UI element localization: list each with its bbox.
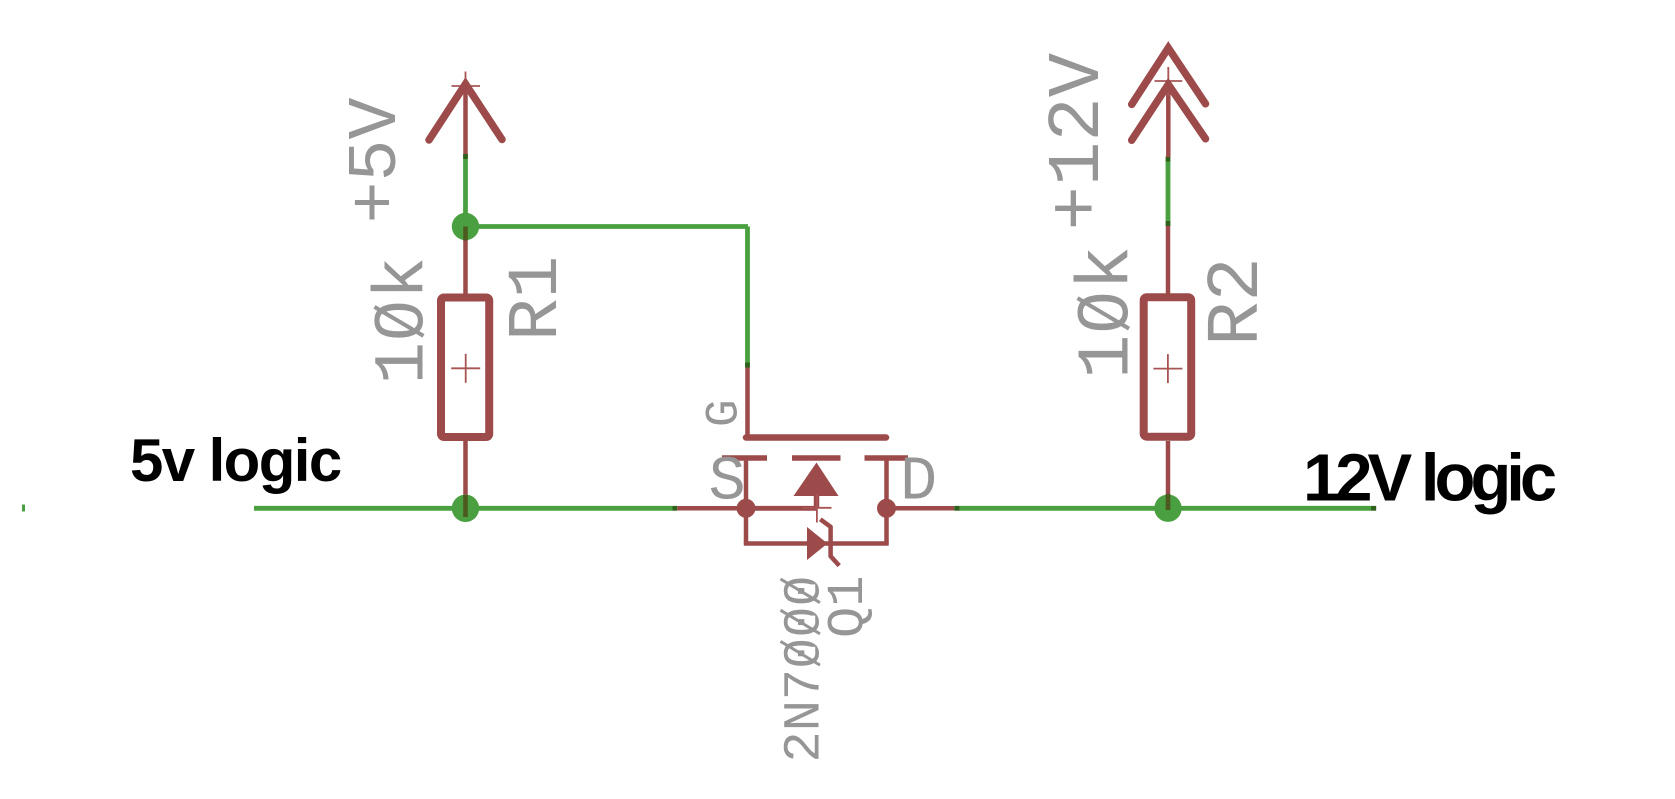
wire net +12V vertical	[1166, 221, 1171, 226]
junction node S	[737, 499, 756, 518]
transistor Q1 origin cross	[803, 494, 832, 523]
svg-text:10k: 10k	[1067, 246, 1151, 379]
transistor Q1 source lead	[744, 458, 749, 508]
supply +5V arrow symbol	[429, 84, 502, 140]
svg-text:R2: R2	[1196, 257, 1280, 346]
supply +12V origin cross	[1155, 67, 1183, 96]
supply +5V pin stem	[463, 86, 468, 156]
svg-text:D: D	[900, 447, 937, 518]
junction node D	[877, 499, 896, 518]
pin R1 bottom	[463, 441, 468, 508]
transistor Q1 drain lead	[884, 458, 889, 508]
resistor R2 origin cross	[1153, 354, 1182, 383]
supply +5V origin cross	[452, 72, 481, 101]
body diode loop	[744, 508, 889, 543]
wire gate net horizontal	[466, 224, 749, 229]
resistor R1 origin cross	[451, 354, 480, 383]
svg-text:G: G	[699, 399, 751, 427]
pin S lead wire	[677, 506, 746, 511]
junction node R1/5v-logic	[452, 495, 479, 522]
svg-text:R1: R1	[498, 256, 578, 341]
junction node R2/12V-logic	[1154, 495, 1181, 522]
label 10k (R2 value)	[1067, 246, 1151, 379]
svg-text:10k: 10k	[365, 257, 445, 385]
transistor Q1 gate bar	[746, 434, 886, 441]
pin R1 top	[463, 227, 468, 294]
pin R2 top	[1166, 226, 1171, 295]
wire net 5V vertical	[463, 154, 468, 159]
pin R2 bottom	[1166, 441, 1171, 508]
svg-text:+5V: +5V	[338, 97, 417, 223]
resistor R1 body	[441, 298, 489, 438]
svg-text:12V logic: 12V logic	[1303, 441, 1556, 516]
resistor R2 body	[1144, 297, 1192, 437]
node stub left edge	[22, 505, 25, 512]
svg-text:S: S	[709, 447, 746, 518]
supply +12V pin stem	[1166, 85, 1171, 157]
transistor Q1 channel dashes	[722, 455, 908, 461]
supply +12V arrow symbol	[1132, 48, 1206, 140]
body diode (zener) of Q1	[807, 527, 828, 560]
pin D lead wire	[887, 506, 955, 511]
wire 12V logic net	[960, 506, 1371, 511]
label 2N7000	[776, 575, 835, 762]
junction node +5V/R1/gate	[452, 213, 479, 240]
svg-text:+12V: +12V	[1037, 52, 1121, 230]
pin gate of Q1	[745, 368, 750, 438]
label 10k (R1 value)	[365, 257, 445, 385]
transistor Q1 bulk arrow	[794, 463, 839, 497]
svg-text:Q1: Q1	[819, 576, 878, 638]
wire 5v logic net	[254, 506, 673, 511]
wire source-bulk	[746, 506, 817, 511]
wire gate net vertical	[745, 227, 750, 368]
svg-text:5v logic: 5v logic	[130, 427, 341, 494]
